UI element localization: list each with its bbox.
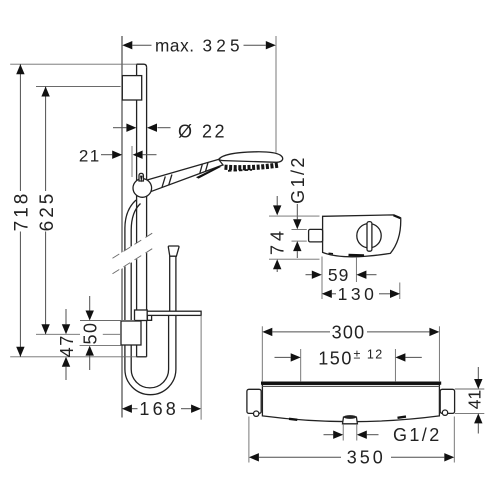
spray face teeth xyxy=(225,165,280,168)
dimension 50 xyxy=(80,296,135,370)
side body xyxy=(323,215,401,257)
knob circle xyxy=(357,224,381,248)
front body xyxy=(262,385,439,422)
front bottom dash right xyxy=(398,417,407,418)
side top facet xyxy=(394,215,401,218)
dimension 168 xyxy=(122,315,201,419)
handle grip band xyxy=(162,176,165,187)
dimension 21 xyxy=(79,146,157,177)
front top plate xyxy=(261,382,441,385)
handle neck band xyxy=(200,164,203,173)
svg-text:130: 130 xyxy=(338,284,378,304)
svg-text:Ø 22: Ø 22 xyxy=(178,121,227,141)
dimension 47 xyxy=(57,309,121,380)
svg-text:41: 41 xyxy=(465,390,485,409)
dimension 350 xyxy=(249,417,454,468)
svg-text:21: 21 xyxy=(79,146,101,165)
hand shower hose xyxy=(125,200,176,395)
wall reference line xyxy=(121,36,123,418)
hand shower handle xyxy=(146,159,223,191)
svg-text:74: 74 xyxy=(268,227,288,255)
front right screw xyxy=(442,410,447,415)
side bottom tick small xyxy=(329,252,334,255)
porter bar xyxy=(147,311,201,315)
svg-text:168: 168 xyxy=(139,399,179,419)
side nipple xyxy=(309,229,323,242)
dimension diameter 22 xyxy=(113,121,227,141)
front bottom dash left xyxy=(289,419,297,420)
rail break mark xyxy=(111,232,154,275)
svg-text:50: 50 xyxy=(81,321,101,344)
front left nipple xyxy=(247,389,261,413)
dimension 41 xyxy=(455,367,485,434)
porter lip xyxy=(147,316,151,321)
handle shadow wedge xyxy=(196,166,221,178)
lower wall bracket xyxy=(121,321,141,345)
svg-text:± 12: ± 12 xyxy=(354,347,384,361)
hose cone fitting xyxy=(168,246,179,256)
svg-text:G1/2: G1/2 xyxy=(288,155,308,204)
svg-text:150: 150 xyxy=(318,348,353,368)
svg-text:59: 59 xyxy=(328,265,349,285)
svg-text:718: 718 xyxy=(12,191,33,232)
dimension max. 325 xyxy=(122,35,276,153)
dimension 300 xyxy=(262,322,439,381)
knob grip bar xyxy=(367,222,372,252)
svg-text:300: 300 xyxy=(332,322,366,342)
thermostat side view xyxy=(309,215,401,257)
dimension G1/2 side xyxy=(288,155,308,258)
dimension 74 xyxy=(268,196,320,272)
svg-text:G1/2: G1/2 xyxy=(393,425,442,445)
shower head xyxy=(219,152,283,171)
side bottom tick large xyxy=(349,254,365,257)
svg-text:max. 325: max. 325 xyxy=(155,35,244,55)
front right nipple xyxy=(440,389,454,413)
pin arrow xyxy=(140,176,143,183)
dimension G1/2 front xyxy=(324,424,442,445)
dimension 625 xyxy=(36,87,121,335)
wall bar rail xyxy=(137,64,147,357)
thermostat front view xyxy=(247,383,455,424)
front outlet xyxy=(343,417,358,424)
dimension 718 xyxy=(10,64,136,357)
front left screw xyxy=(254,411,259,416)
upper wall bracket xyxy=(122,76,141,100)
svg-text:625: 625 xyxy=(37,191,58,232)
slider release pin xyxy=(139,173,143,181)
porter mount on rail xyxy=(135,310,148,321)
dimension 130 xyxy=(322,257,400,305)
dimension 59 xyxy=(306,257,377,285)
svg-text:47: 47 xyxy=(57,334,77,357)
holder circle xyxy=(133,179,152,198)
dimension 150 plus/minus 12 xyxy=(275,347,422,381)
svg-text:350: 350 xyxy=(347,448,386,468)
